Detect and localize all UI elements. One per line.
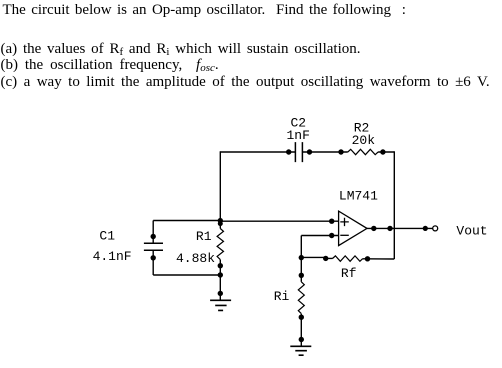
svg-text:Rf: Rf bbox=[341, 266, 357, 281]
wire mid horizontal to + input bbox=[153, 220, 338, 223]
wire bottom horizontal C1 to R1 bbox=[153, 274, 220, 276]
op-amp plus sign bbox=[340, 218, 349, 226]
op-amp U1 triangle bbox=[339, 211, 367, 246]
resistor R2 bbox=[348, 149, 378, 154]
junction R2 left bbox=[338, 149, 343, 154]
junction R1 bottom pin bbox=[218, 263, 223, 268]
junction node R1 top bbox=[218, 218, 223, 223]
junction output node bbox=[387, 226, 392, 231]
junction node Rf left bbox=[299, 255, 304, 260]
terminal Vout circle bbox=[433, 226, 438, 231]
resistor R1 bbox=[217, 229, 223, 260]
wire top rail left segment bbox=[220, 151, 295, 153]
svg-text:4.1nF: 4.1nF bbox=[93, 249, 132, 264]
junction ground G2 bbox=[299, 337, 304, 342]
junction ground G1 bbox=[218, 291, 223, 296]
junction Vout pin bbox=[423, 226, 428, 231]
wire minus vertical down bbox=[300, 236, 302, 282]
junction Rf pin right bbox=[365, 256, 370, 261]
svg-text:C1: C1 bbox=[99, 229, 115, 244]
junction C2 left bbox=[286, 149, 291, 154]
wire C1 vertical top bbox=[152, 221, 154, 243]
junction node bottom wire bbox=[218, 272, 223, 277]
resistor Rf bbox=[333, 256, 363, 261]
paragraph line (b) bbox=[1, 58, 219, 73]
capacitor C2 bbox=[295, 142, 302, 162]
op-amp minus sign bbox=[340, 234, 349, 236]
wire minus input bbox=[301, 235, 338, 237]
capacitor C1 bbox=[144, 243, 163, 250]
junction Ri bottom pin bbox=[299, 315, 304, 320]
wire R1 bottom to ground bbox=[219, 260, 221, 300]
junction R1 pin top bbox=[218, 221, 223, 226]
svg-text:R1: R1 bbox=[196, 229, 212, 244]
resistor Ri bbox=[298, 282, 304, 314]
wire Ri bottom to ground bbox=[300, 314, 302, 347]
ground G1 bbox=[210, 300, 231, 310]
svg-text:Vout: Vout bbox=[456, 224, 487, 239]
junction C1 bottom bbox=[151, 255, 156, 260]
wire left vertical bbox=[219, 151, 221, 228]
wire right vertical bbox=[393, 151, 395, 259]
junction op-amp plus pin bbox=[329, 219, 334, 224]
wire top rail mid segment bbox=[303, 151, 348, 153]
paragraph line 1 bbox=[3, 3, 406, 18]
paragraph line (c) bbox=[1, 75, 490, 90]
wire C1 vertical bottom bbox=[152, 251, 154, 275]
svg-text:LM741: LM741 bbox=[339, 189, 378, 204]
junction Ri top pin bbox=[299, 273, 304, 278]
wire Rf row bbox=[301, 257, 394, 259]
junction C1 top bbox=[151, 234, 156, 239]
junction op-amp minus pin bbox=[329, 233, 334, 238]
junction op-amp output pin bbox=[371, 226, 376, 231]
junction Rf pin left bbox=[323, 256, 328, 261]
svg-text:Ri: Ri bbox=[274, 289, 290, 304]
junction R2 right bbox=[380, 149, 385, 154]
paragraph line (a) bbox=[1, 42, 361, 57]
junction C2 right bbox=[307, 149, 312, 154]
ground G2 bbox=[290, 346, 311, 355]
svg-text:4.88k: 4.88k bbox=[176, 251, 215, 266]
wire output bbox=[367, 227, 433, 229]
svg-text:1nF: 1nF bbox=[286, 128, 309, 143]
svg-text:20k: 20k bbox=[352, 133, 376, 148]
wire top rail right segment bbox=[378, 151, 394, 153]
